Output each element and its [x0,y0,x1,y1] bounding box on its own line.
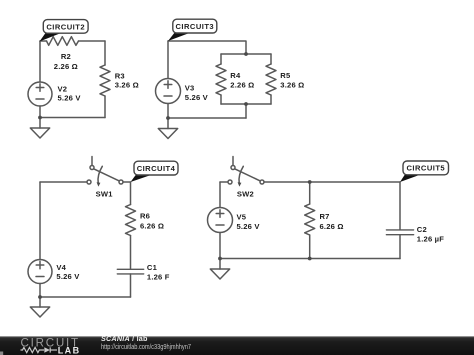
wire c4 bottom rail [40,296,131,298]
svg-text:6.26 Ω: 6.26 Ω [140,221,164,230]
wire c4 left vertical lower [39,284,41,298]
svg-text:CIRCUIT3: CIRCUIT3 [175,22,214,31]
voltage source V2 [28,82,52,106]
svg-text:CIRCUIT2: CIRCUIT2 [46,23,85,32]
svg-text:R4: R4 [230,71,241,80]
svg-text:SW1: SW1 [96,190,114,199]
svg-text:1.26 µF: 1.26 µF [417,234,444,243]
label R2 value [54,52,78,71]
label R3 value [115,71,139,89]
wire c3 middle down [245,104,247,118]
svg-text:5.26 V: 5.26 V [56,272,80,281]
svg-text:3.26 Ω: 3.26 Ω [280,81,304,90]
capacitor C2 [386,230,413,235]
wire c2 right lower [104,96,106,118]
wire c3 R5 bottom lead [270,95,272,104]
ground c3 [158,118,177,139]
svg-text:LAB: LAB [58,346,80,355]
label R6 value [140,212,164,231]
label C2 value [417,225,444,244]
label V2 value [58,84,82,102]
svg-text:http://circuitlab.com/c33g9hjm: http://circuitlab.com/c33g9hjmhhyn7 [101,344,191,351]
wire c4 R6 to C1 [130,236,132,270]
label V5 value [237,212,261,231]
logo diode triangle [44,347,50,352]
node c3 bottom junction [244,102,248,106]
wire c3 R4 top lead [220,54,222,64]
svg-text:1.26 F: 1.26 F [147,273,170,282]
wire c5 R7 top lead [309,182,311,204]
node c4 bottom junction [38,295,42,299]
callout CIRCUIT3 [168,19,217,41]
svg-text:R7: R7 [320,212,330,221]
wire c5 bottom rail [220,258,400,260]
ground c4 [30,297,49,317]
callout CIRCUIT4 [131,161,179,182]
wire c3 parallel top rail [221,53,271,55]
svg-text:R6: R6 [140,212,150,221]
svg-text:R5: R5 [280,71,291,80]
voltage source V3 [156,79,181,104]
svg-text:SCANIA / lab: SCANIA / lab [101,334,148,343]
svg-text:5.26 V: 5.26 V [237,222,261,231]
svg-text:V2: V2 [58,84,68,93]
resistor R3 [100,65,110,96]
wire c3 V3 bottom stub [167,104,169,119]
node c5 R7 top junction [308,180,312,184]
wire c2 right upper [104,41,106,65]
logo resistor squiggle and diode [21,347,58,352]
svg-text:6.26 Ω: 6.26 Ω [320,222,344,231]
footer bar top edge [0,335,474,338]
resistor R5 [266,64,276,95]
svg-text:C2: C2 [417,225,427,234]
svg-text:3.26 Ω: 3.26 Ω [115,80,139,89]
footer bar [0,336,474,355]
wire c2 V2 bottom stub [39,106,41,118]
wire c3 left vertical [167,41,169,79]
wire c4 switch to corner [123,181,131,183]
resistor R4 [216,64,226,95]
resistor R2 [47,37,79,46]
node c3 ground junction [166,116,170,120]
wire c4 C1 to bottom [130,274,132,297]
label C1 value [147,263,170,282]
wire c5 top rail [264,181,400,183]
wire c3 R4 bottom lead [220,95,222,104]
svg-text:5.26 V: 5.26 V [58,93,82,102]
wire c3 bottom rail [168,117,246,119]
resistor R6 [126,205,136,236]
switch SW2 [228,157,264,187]
svg-text:R3: R3 [115,71,125,80]
wire c2 top-left lead [40,40,47,42]
svg-text:CIRCUIT4: CIRCUIT4 [137,164,176,173]
svg-text:V4: V4 [56,263,66,272]
wire c5 R7 bottom lead [309,235,311,259]
svg-text:2.26 Ω: 2.26 Ω [54,62,78,71]
wire c5 right vertical to C2 [399,182,401,230]
wire c5 C2 to bottom [399,235,401,259]
label R5 value [280,71,304,90]
footer corner notch [0,352,3,355]
node c5 R7 bottom junction [308,257,312,261]
svg-text:5.26 V: 5.26 V [185,93,209,102]
ground c2 [30,118,49,139]
svg-text:R2: R2 [61,52,71,61]
voltage source V5 [208,208,233,233]
svg-text:C1: C1 [147,263,158,272]
wire c2 bottom rail [40,117,105,119]
svg-text:SW2: SW2 [237,190,254,199]
label V4 value [56,263,80,281]
ground c5 [210,259,229,280]
svg-text:CIRCUIT5: CIRCUIT5 [406,164,445,173]
wire c5 left vertical lower [219,233,221,259]
capacitor C1 [117,269,143,274]
wire c5 left vertical upper [219,182,221,208]
node c3 top junction [244,52,248,56]
callout CIRCUIT5 [400,161,449,182]
node c2 bottom junction [38,116,42,120]
wire c5 top to switch [220,181,228,183]
wire c4 left vertical upper [39,182,41,260]
wire c2 left vertical [39,41,41,82]
wire c2 top-right lead [79,40,106,42]
wire c3 parallel bottom rail [221,103,271,105]
node c5 ground junction [218,257,222,261]
voltage source V4 [28,260,52,284]
wire c3 R5 top lead [270,54,272,64]
label V3 value [185,83,209,102]
resistor R7 [305,204,315,235]
wire c4 top to switch [40,181,87,183]
switch SW1 [87,157,123,187]
callout CIRCUIT2 [40,20,89,42]
svg-text:2.26 Ω: 2.26 Ω [230,81,254,90]
label R4 value [230,71,254,90]
label R7 value [320,212,344,231]
wire c4 right vertical to R6 [130,182,132,205]
svg-text:V5: V5 [237,212,247,221]
svg-text:V3: V3 [185,83,195,92]
wire c3 top rail [168,41,246,54]
